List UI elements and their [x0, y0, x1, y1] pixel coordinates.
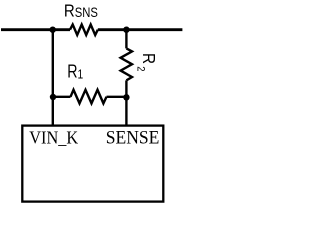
svg-text:RSNS: RSNS	[64, 0, 98, 21]
label R1	[67, 62, 83, 82]
pin label SENSE	[106, 127, 160, 148]
wire: R1 right stub	[107, 96, 127, 98]
wire: top horizontal left segment	[1, 28, 70, 31]
wire: R1 left stub	[53, 96, 71, 98]
wire: right vertical upper segment to R2	[125, 30, 127, 49]
resistor R1 zigzag	[71, 90, 107, 104]
node: R1 right junction dot	[123, 94, 129, 100]
svg-text:SENSE: SENSE	[106, 127, 160, 148]
resistor RSNS zigzag	[70, 25, 98, 36]
pin label VIN_K	[29, 128, 78, 148]
IC box	[22, 126, 163, 202]
label R2 (rotated 90 degrees)	[134, 53, 159, 72]
wire: top horizontal right segment	[98, 28, 183, 31]
svg-text:R1: R1	[67, 62, 83, 82]
wire: right vertical lower segment from R2 to box SENSE pin	[125, 80, 127, 125]
wire: left vertical from top junction to box VIN_K pin	[52, 30, 54, 126]
node: top-left junction dot	[50, 27, 56, 33]
node: R1 left junction dot	[50, 94, 56, 100]
svg-text:R2: R2	[134, 53, 159, 72]
node: top-right junction dot	[123, 27, 129, 33]
label RSNS	[64, 0, 98, 21]
resistor R2 zigzag (vertical)	[121, 48, 132, 80]
svg-text:VIN_K: VIN_K	[29, 128, 78, 148]
